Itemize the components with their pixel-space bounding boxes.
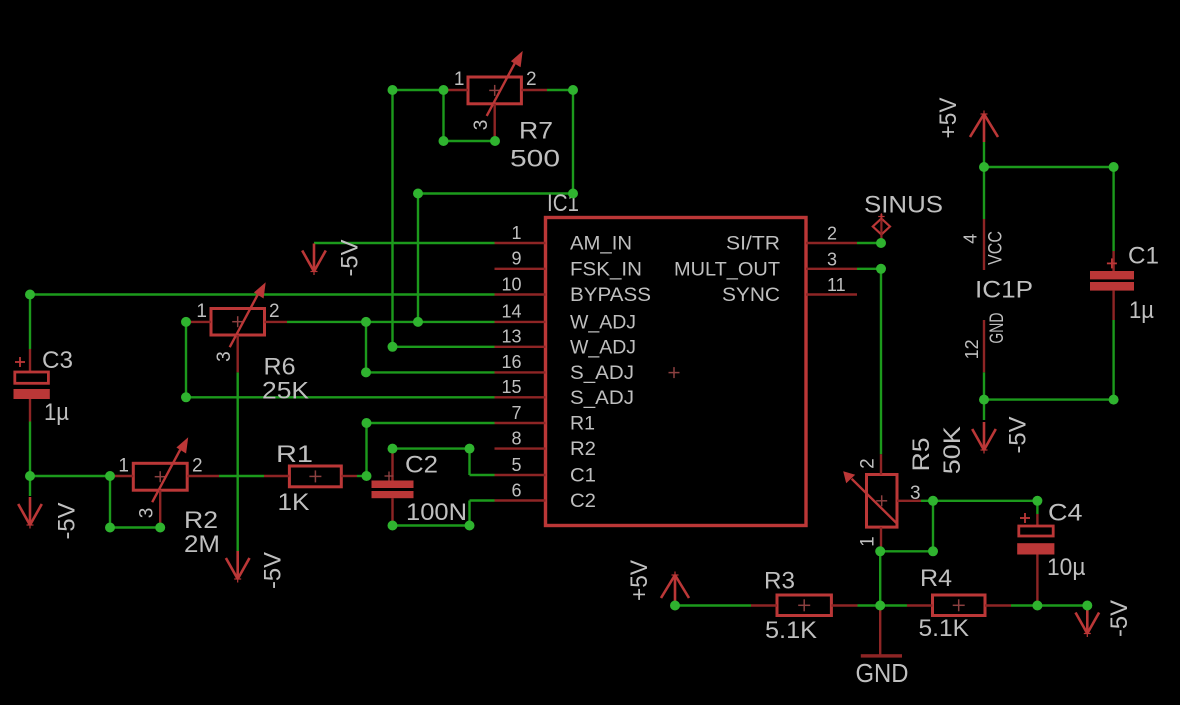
+5V supply symbol bottom left — [661, 572, 689, 604]
R7 pin 2 — [521, 89, 547, 91]
wire AM_IN net horizontal — [314, 242, 495, 244]
IC1P VCC pin 4 stub — [983, 219, 985, 270]
C1 value label 1u — [1129, 297, 1154, 324]
R7 pin number 3 — [471, 120, 492, 131]
junction dot 7 at 186,397.3 — [181, 392, 191, 402]
IC1 pin 2 stub — [806, 242, 857, 244]
svg-text:VCC: VCC — [986, 231, 1007, 265]
svg-text:3: 3 — [214, 351, 235, 362]
svg-text:9: 9 — [511, 249, 521, 269]
junction dot 10 at 366,372.4 — [361, 367, 371, 377]
resistor R7 500 trimmer body — [468, 51, 523, 116]
wire pin15 net horizontal — [186, 396, 495, 398]
wire R7 pin1 drop vertical — [391, 90, 393, 347]
svg-text:10µ: 10µ — [1047, 554, 1086, 581]
svg-text:C3: C3 — [42, 347, 73, 374]
R7 pin 1 — [444, 89, 469, 91]
IC1 pin 10 stub — [495, 293, 546, 295]
svg-text:GND: GND — [987, 313, 1008, 344]
op-amp U1 / IC1 XR2206 body — [546, 218, 807, 526]
wire C1 top vertical — [1112, 167, 1114, 251]
wire R1 right stub — [357, 475, 367, 477]
R6 pin 1 — [186, 321, 211, 323]
svg-text:1: 1 — [511, 223, 521, 243]
wire R5 pin3 drop vertical — [932, 501, 934, 552]
C3 value label 1u — [44, 399, 69, 426]
svg-text:50K: 50K — [939, 426, 966, 474]
svg-text:1: 1 — [196, 301, 207, 322]
R3 value label 5.1K — [765, 617, 817, 644]
wire R7 pin2 stub — [547, 89, 573, 91]
svg-text:MULT_OUT: MULT_OUT — [674, 259, 780, 280]
svg-text:3: 3 — [827, 249, 837, 269]
IC1 pin name W_ADJ — [570, 337, 636, 358]
wire R3 to GND node — [858, 604, 908, 606]
wire R5 pin3 stub — [921, 500, 933, 502]
junction dot 15 at 443.5,141 — [439, 136, 449, 146]
junction dot 19 at 366.5,423 — [362, 418, 372, 428]
junction dot 20 at 366.5,476 — [362, 471, 372, 481]
IC1 pin number 11 — [827, 275, 846, 295]
IC1 pin number 9 — [511, 249, 521, 269]
svg-text:1: 1 — [858, 536, 879, 547]
junction dot 11 at 392.5,346.8 — [388, 342, 398, 352]
IC1 pin name C2 — [570, 491, 596, 512]
svg-text:W_ADJ: W_ADJ — [570, 312, 636, 333]
wire R7 pin1 horizontal — [393, 89, 444, 91]
IC1 pin number 3 — [827, 249, 837, 269]
R1 left pin — [264, 475, 289, 477]
junction dot 27 at 984,167 — [979, 162, 989, 172]
C3 name label — [42, 347, 73, 374]
svg-text:SYNC: SYNC — [722, 285, 780, 306]
svg-text:C4: C4 — [1048, 500, 1083, 527]
C2 value label 100N — [406, 499, 467, 526]
IC1 pin 6 stub — [495, 499, 546, 501]
IC1 pin 7 stub — [495, 422, 546, 424]
svg-text:+5V: +5V — [935, 98, 962, 139]
junction dot 16 at 495,141 — [490, 136, 500, 146]
svg-text:AM_IN: AM_IN — [570, 234, 632, 255]
IC1 pin number 6 — [511, 480, 521, 500]
C1 name label — [1128, 243, 1159, 270]
R6 pin number 2 — [269, 301, 280, 322]
svg-text:-5V: -5V — [1005, 417, 1032, 454]
IC1 pin name S_ADJ — [570, 363, 634, 384]
-5V label below C3 — [54, 503, 81, 540]
IC1 pin name W_ADJ — [570, 312, 636, 333]
junction dot 37 at 1087.3,605.5 — [1082, 601, 1092, 611]
svg-text:1µ: 1µ — [1129, 297, 1154, 324]
wire R7 pin2 drop vertical — [572, 90, 574, 194]
IC1 pin number 5 — [511, 455, 521, 475]
wire +5V to R3 — [675, 604, 751, 606]
IC1 pin number 15 — [501, 377, 521, 397]
junction dot 12 at 392.5,90 — [388, 85, 398, 95]
svg-text:16: 16 — [501, 352, 521, 372]
svg-text:R4: R4 — [920, 565, 952, 592]
R4 name label — [920, 565, 952, 592]
svg-text:C1: C1 — [570, 466, 596, 487]
svg-text:100N: 100N — [406, 499, 467, 526]
svg-text:+5V: +5V — [626, 560, 653, 601]
wire C2bot to pin6 vertical — [468, 501, 470, 526]
svg-text:3: 3 — [910, 483, 921, 504]
resistor R6 25K trimmer body — [211, 282, 266, 347]
junction dot 33 at 880.2,551.3 — [875, 546, 885, 556]
IC1 pin number 8 — [511, 428, 521, 448]
C4 value label 10u — [1047, 554, 1086, 581]
resistor R1 1K body — [289, 466, 341, 487]
wire R6 pin2 net — [287, 321, 366, 323]
wire R6net to pin16 vertical — [365, 322, 367, 373]
svg-text:-5V: -5V — [54, 503, 81, 540]
svg-text:2: 2 — [526, 69, 537, 90]
svg-text:C2: C2 — [405, 452, 438, 479]
svg-text:FSK_IN: FSK_IN — [570, 259, 642, 280]
wire C2 bottom horizontal — [393, 524, 470, 526]
-5V label top middle — [337, 240, 364, 277]
junction dot 35 at 880.2,605.5 — [875, 601, 885, 611]
IC1P pin name VCC — [986, 231, 1007, 265]
junction dot 34 at 933,551.3 — [928, 546, 938, 556]
IC1 pin name SYNC — [722, 285, 780, 306]
svg-text:2: 2 — [192, 456, 203, 477]
junction dot 22 at 469.5,448.6 — [465, 444, 475, 454]
SINUS net label — [864, 192, 943, 219]
junction dot 3 at 110,476 — [105, 471, 115, 481]
svg-text:R6: R6 — [264, 354, 296, 381]
junction dot 17 at 418,193.5 — [413, 189, 423, 199]
junction dot 25 at 881,243 — [876, 238, 886, 248]
svg-text:2: 2 — [827, 224, 837, 244]
IC1 pin 3 stub — [806, 268, 857, 270]
IC1 pin 1 stub — [495, 242, 546, 244]
wire pin5 net horizontal — [470, 474, 495, 476]
wire R5 pin1 tie horizontal — [880, 550, 933, 552]
wire +5V to VCC vertical — [983, 142, 985, 219]
IC1 pin 13 stub — [495, 346, 546, 348]
resistor R3 5.1K body — [777, 595, 831, 616]
svg-text:R7: R7 — [519, 118, 553, 145]
IC1 reference label — [547, 190, 579, 217]
svg-text:SI/TR: SI/TR — [726, 234, 780, 255]
svg-text:IC1P: IC1P — [975, 277, 1033, 304]
-5V supply symbol top middle — [302, 244, 326, 276]
svg-text:1: 1 — [118, 456, 129, 477]
R7 name label — [519, 118, 553, 145]
svg-text:10: 10 — [501, 274, 521, 294]
wire wiper net horizontal — [418, 192, 573, 194]
wire C1 bottom vertical — [1112, 320, 1114, 400]
svg-text:14: 14 — [501, 302, 521, 322]
svg-text:1K: 1K — [278, 489, 310, 516]
R5 value label 50K — [939, 426, 966, 474]
svg-text:1µ: 1µ — [44, 399, 69, 426]
svg-text:SINUS: SINUS — [864, 192, 943, 219]
svg-text:13: 13 — [501, 327, 521, 347]
R7 value label 500 — [510, 146, 560, 173]
IC1 pin 11 stub — [806, 293, 857, 295]
capacitor C2 100N — [372, 449, 414, 526]
svg-text:C1: C1 — [1128, 243, 1159, 270]
wire pin14 net horizontal — [366, 321, 495, 323]
junction dot 23 at 392.5,525.5 — [388, 521, 398, 531]
node SINUS port diamond — [873, 213, 890, 243]
R6 pin number 1 — [196, 301, 207, 322]
-5V supply symbol below R2 — [226, 551, 250, 583]
wire GND to -5V vertical — [983, 400, 985, 420]
R5 pin 2 — [880, 454, 882, 474]
GND label — [856, 658, 909, 688]
junction dot 9 at 418,321.9 — [413, 317, 423, 327]
capacitor C1 1u — [1090, 251, 1134, 320]
wire MULT_OUT to R5 vertical — [880, 269, 882, 455]
R2 pin 3 — [159, 490, 161, 527]
wire R1 to pin7 vertical — [365, 423, 367, 476]
IC1 pin name S_ADJ — [570, 388, 634, 409]
junction dot 6 at 186,321.9 — [181, 317, 191, 327]
svg-text:1: 1 — [454, 69, 465, 90]
R2 pin number 2 — [192, 456, 203, 477]
IC1 pin number 2 — [827, 224, 837, 244]
junction dot 30 at 1113.6,399.6 — [1109, 395, 1119, 405]
R1 name label — [276, 441, 313, 468]
junction dot 36 at 1037.4,605.5 — [1032, 601, 1042, 611]
junction dot 29 at 984,399.6 — [979, 395, 989, 405]
svg-text:R2: R2 — [184, 507, 218, 534]
R2 name label — [184, 507, 218, 534]
resistor R5 50K trimmer body — [843, 471, 897, 527]
-5V label below R2 — [260, 552, 287, 589]
svg-text:GND: GND — [856, 658, 909, 688]
junction dot 32 at 1037.4,500.8 — [1032, 496, 1042, 506]
wire pin8 row horizontal — [393, 447, 470, 449]
wire R7 pin3 tie vertical — [442, 90, 444, 141]
wire GND rail horizontal — [984, 398, 1114, 400]
wire wiper net vertical — [417, 194, 419, 322]
wire R2-R1 net — [219, 475, 264, 477]
wire pin6 net horizontal — [470, 499, 495, 501]
+5V label bottom left — [626, 560, 653, 601]
svg-text:S_ADJ: S_ADJ — [570, 363, 634, 384]
wire BYPASS net horizontal — [30, 293, 495, 295]
wire pin3 MULT_OUT stub — [857, 268, 881, 270]
wire C2top to pin5 vertical — [468, 449, 470, 475]
wire R7 pin3 tie horizontal — [444, 140, 496, 142]
wire C3 to R2 horizontal — [30, 475, 110, 477]
wire R6 pin3 to -5V vertical — [236, 372, 238, 553]
junction dot 2 at 30,476 — [25, 471, 35, 481]
resistor R4 5.1K body — [933, 595, 986, 616]
svg-text:25K: 25K — [262, 378, 309, 405]
R2 value label 2M — [184, 531, 220, 558]
wire GND pin vertical — [983, 372, 985, 399]
R2 pin 1 — [111, 475, 133, 477]
wire R2 pin1 vertical — [109, 476, 111, 528]
R3 name label — [764, 568, 795, 595]
IC1 pin name R2 — [570, 439, 596, 460]
svg-text:5.1K: 5.1K — [765, 617, 817, 644]
R5 name label — [908, 437, 935, 471]
IC1 pin number 10 — [501, 274, 521, 294]
svg-text:S_ADJ: S_ADJ — [570, 388, 634, 409]
C2 name label — [405, 452, 438, 479]
wire C4 top stub vertical — [1036, 501, 1038, 514]
wire VCC to C1 horizontal — [984, 166, 1114, 168]
R6 value label 25K — [262, 378, 309, 405]
IC1 pin name C1 — [570, 466, 596, 487]
wire C3 bottom vertical — [29, 422, 31, 477]
IC1 pin number 16 — [501, 352, 521, 372]
R7 pin 3 — [494, 104, 496, 141]
junction dot 28 at 1113.6,167 — [1109, 162, 1119, 172]
svg-text:11: 11 — [827, 275, 846, 295]
wire pin16 net horizontal — [366, 371, 495, 373]
C4 name label — [1048, 500, 1083, 527]
IC1 pin number 13 — [501, 327, 521, 347]
-5V supply symbol below IC1P — [972, 422, 996, 454]
capacitor C3 1u electrolytic — [14, 349, 50, 422]
svg-text:-5V: -5V — [337, 240, 364, 277]
R2 pin 2 — [187, 475, 219, 477]
R5 pin number 3 — [910, 483, 921, 504]
-5V label below IC1P — [1005, 417, 1032, 454]
IC1 pin 16 stub — [495, 371, 546, 373]
junction dot 21 at 392.5,448.6 — [388, 444, 398, 454]
wire C3 top vertical — [29, 295, 31, 350]
svg-text:8: 8 — [511, 428, 521, 448]
R5 pin number 2 — [858, 458, 879, 469]
wire R5pin3 to C4 horizontal — [933, 500, 1037, 502]
junction dot 13 at 443.5,90 — [439, 85, 449, 95]
R4 left pin — [907, 604, 933, 606]
R7 pin number 1 — [454, 69, 465, 90]
junction dot 26 at 881,268.8 — [876, 264, 886, 274]
-5V label bottom right — [1106, 600, 1133, 637]
IC1P reference label — [975, 277, 1033, 304]
wire R6 pin1 vertical — [185, 322, 187, 397]
IC1 pin 15 stub — [495, 396, 546, 398]
svg-text:2M: 2M — [184, 531, 220, 558]
IC1P pin number 4 — [961, 234, 981, 244]
IC1 pin number 7 — [511, 403, 521, 423]
R6 name label — [264, 354, 296, 381]
R5 pin number 1 — [858, 536, 879, 547]
R5 pin 1 — [880, 527, 882, 551]
IC1 pin name FSK_IN — [570, 259, 642, 280]
svg-text:C2: C2 — [570, 491, 596, 512]
ground GND symbol — [861, 606, 902, 658]
svg-text:12: 12 — [962, 339, 982, 359]
wire R4 to C4 rail — [1011, 604, 1087, 606]
junction dot 18 at 573,193.5 — [568, 189, 578, 199]
svg-text:R1: R1 — [570, 414, 595, 435]
svg-text:3: 3 — [137, 508, 158, 519]
wire pin13 net horizontal — [393, 346, 495, 348]
IC1 pin name AM_IN — [570, 234, 632, 255]
wire pin7 net horizontal — [367, 422, 495, 424]
R1 right pin — [341, 475, 357, 477]
svg-text:15: 15 — [501, 377, 521, 397]
junction dot 8 at 366,321.9 — [361, 317, 371, 327]
IC1 pin name R1 — [570, 414, 595, 435]
wire R2 pin3 tie horizontal — [110, 526, 160, 528]
+5V label top right — [935, 98, 962, 139]
R6 pin 2 — [265, 321, 288, 323]
+5V supply symbol top right — [970, 111, 998, 143]
R4 right pin — [985, 604, 1011, 606]
R6 pin 3 — [236, 335, 238, 372]
IC1P pin name GND — [987, 313, 1008, 344]
IC1P GND pin 12 stub — [983, 320, 985, 372]
IC1 pin name MULT_OUT — [674, 259, 780, 280]
wire R5 pin1 to rail vertical — [879, 551, 881, 605]
junction dot 24 at 469.5,525.5 — [465, 521, 475, 531]
junction dot 5 at 160.2,527.5 — [155, 523, 165, 533]
R7 pin number 2 — [526, 69, 537, 90]
IC1 pin 5 stub — [495, 474, 546, 476]
svg-text:-5V: -5V — [1106, 600, 1133, 637]
junction dot 38 at 675,605.5 — [670, 601, 680, 611]
svg-text:R1: R1 — [276, 441, 313, 468]
wire -5V drop below C3 — [29, 476, 31, 496]
IC1 pin number 14 — [501, 302, 521, 322]
svg-text:3: 3 — [471, 120, 492, 131]
-5V supply symbol bottom right — [1076, 606, 1100, 638]
capacitor C4 10u electrolytic — [1017, 513, 1054, 606]
R3 left pin — [751, 604, 777, 606]
resistor R2 2M trimmer body — [133, 437, 188, 502]
R1 value label 1K — [278, 489, 310, 516]
R6 pin number 3 — [214, 351, 235, 362]
IC1 pin 8 stub — [495, 447, 546, 449]
svg-text:R3: R3 — [764, 568, 795, 595]
svg-text:500: 500 — [510, 146, 560, 173]
R2 pin number 3 — [137, 508, 158, 519]
junction dot 31 at 933,500.8 — [928, 496, 938, 506]
svg-text:4: 4 — [961, 234, 981, 244]
svg-text:-5V: -5V — [260, 552, 287, 589]
R5 pin 3 — [897, 500, 921, 502]
IC1 pin number 1 — [511, 223, 521, 243]
IC1P pin number 12 — [962, 339, 982, 359]
R2 pin number 1 — [118, 456, 129, 477]
junction dot 14 at 573,90 — [568, 85, 578, 95]
svg-text:BYPASS: BYPASS — [570, 285, 651, 306]
IC1 pin name BYPASS — [570, 285, 651, 306]
svg-text:5.1K: 5.1K — [919, 615, 970, 642]
svg-text:5: 5 — [511, 455, 521, 475]
svg-text:2: 2 — [269, 301, 280, 322]
R4 value label 5.1K — [919, 615, 970, 642]
svg-text:7: 7 — [511, 403, 521, 423]
svg-text:2: 2 — [858, 458, 879, 469]
svg-text:W_ADJ: W_ADJ — [570, 337, 636, 358]
junction dot 4 at 110,527.5 — [105, 523, 115, 533]
-5V supply symbol below C3 — [18, 497, 42, 529]
IC1 pin 9 stub — [495, 268, 546, 270]
R3 right pin — [831, 604, 857, 606]
IC1 pin 14 stub — [495, 321, 546, 323]
svg-text:R5: R5 — [908, 437, 935, 471]
junction dot 1 at 30,294.5 — [25, 290, 35, 300]
IC1 pin name SI/TR — [726, 234, 780, 255]
svg-text:R2: R2 — [570, 439, 596, 460]
wire pin2 to SINUS — [857, 242, 881, 244]
svg-text:6: 6 — [511, 480, 521, 500]
